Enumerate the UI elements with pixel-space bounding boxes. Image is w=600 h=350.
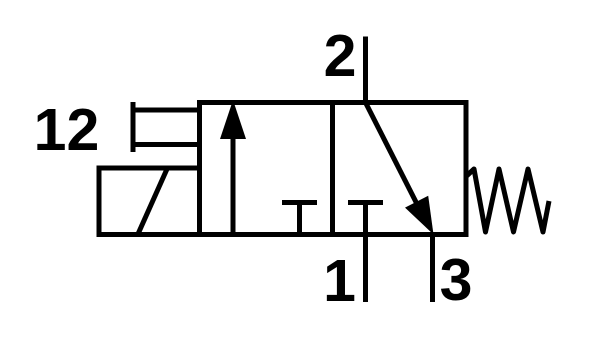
svg-text:2: 2 [324,23,357,89]
svg-text:12: 12 [34,97,100,163]
svg-text:1: 1 [323,248,356,314]
svg-text:3: 3 [440,247,473,313]
